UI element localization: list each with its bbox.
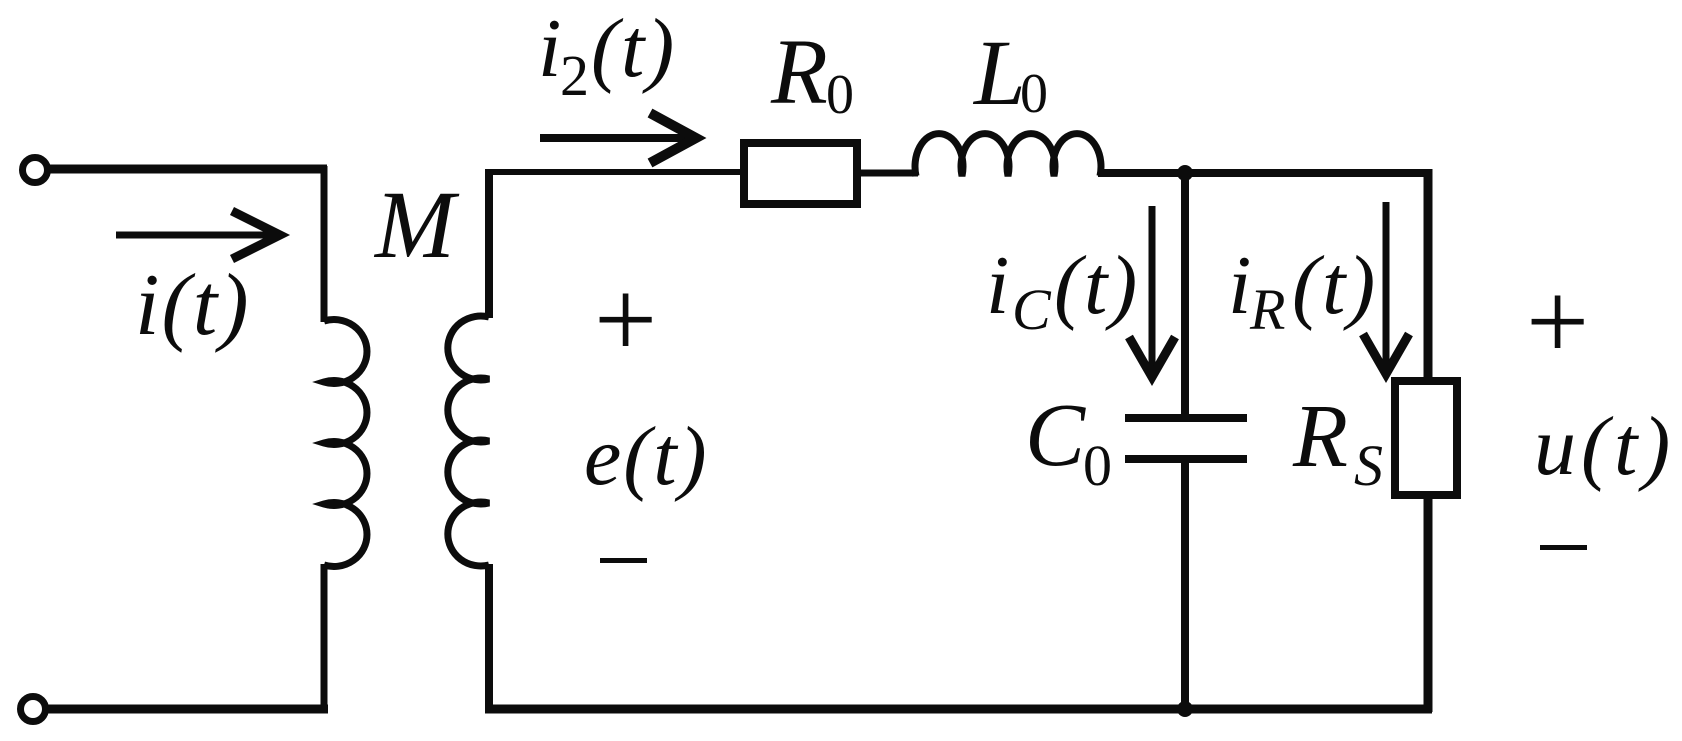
svg-text:R: R — [770, 21, 828, 124]
capacitor C0 top plate — [1125, 414, 1247, 422]
node: top junction — [1177, 165, 1193, 181]
arrow iC(t) head — [1129, 337, 1175, 377]
wire: RS branch lower vertical — [1424, 493, 1433, 712]
wire: secondary top vertical — [485, 169, 493, 318]
wire: bottom rail secondary side — [485, 705, 1432, 714]
svg-text:M: M — [373, 171, 460, 278]
svg-text:u(t): u(t) — [1534, 400, 1675, 493]
svg-text:+: + — [1526, 260, 1589, 384]
svg-text:i: i — [538, 2, 561, 95]
wire: top-left terminal to primary top corner — [47, 165, 327, 174]
minus sign of e(t) — [600, 558, 647, 563]
wire: R0 to L0 — [857, 170, 918, 177]
minus sign of u(t) — [1540, 545, 1587, 550]
wire: bottom-left terminal to primary bottom corner — [45, 705, 328, 714]
svg-text:0: 0 — [1020, 63, 1048, 125]
wire: primary bottom vertical — [321, 564, 328, 712]
terminal T2 bottom-left — [21, 697, 46, 722]
svg-text:C: C — [1025, 386, 1086, 485]
arrow i2(t) shaft — [540, 134, 689, 142]
svg-text:i: i — [1228, 239, 1251, 332]
svg-text:i: i — [986, 239, 1009, 332]
wire: L0 to RS branch top — [1098, 169, 1432, 177]
svg-text:R: R — [1292, 387, 1348, 486]
svg-text:(t): (t) — [591, 2, 676, 95]
svg-text:S: S — [1354, 433, 1383, 498]
wire: C0 branch upper — [1181, 173, 1189, 415]
svg-text:2: 2 — [560, 43, 589, 108]
wire: secondary top to R0 — [486, 169, 746, 175]
svg-text:R: R — [1249, 277, 1285, 342]
node: bottom junction — [1177, 701, 1193, 717]
inductor: transformer secondary winding — [448, 316, 489, 566]
arrow i(t) head — [232, 211, 280, 259]
svg-text:(t): (t) — [1054, 239, 1139, 332]
svg-text:e(t): e(t) — [584, 410, 709, 503]
svg-text:0: 0 — [1083, 433, 1112, 498]
resistor R0 body — [744, 143, 857, 204]
wire: secondary bottom vertical — [485, 564, 493, 712]
svg-text:+: + — [594, 258, 657, 382]
arrow iR(t) head — [1363, 334, 1409, 374]
capacitor C0 bottom plate — [1125, 455, 1247, 463]
svg-text:0: 0 — [826, 64, 854, 126]
arrow iC(t) shaft — [1149, 206, 1156, 372]
arrow i2(t) head — [650, 113, 696, 163]
inductor L0 body — [915, 134, 1101, 176]
wire: C0 branch lower — [1181, 462, 1189, 708]
svg-text:i(t): i(t) — [135, 257, 251, 354]
svg-text:C: C — [1012, 277, 1052, 342]
wire: primary top vertical — [321, 166, 328, 322]
arrow iR(t) shaft — [1383, 202, 1390, 369]
svg-text:L: L — [972, 22, 1026, 125]
inductor: transformer primary winding — [324, 320, 367, 567]
arrow i(t) shaft — [116, 232, 274, 239]
wire: RS branch upper vertical — [1424, 169, 1433, 383]
terminal T1 top-left — [23, 158, 48, 183]
svg-text:(t): (t) — [1292, 239, 1377, 332]
resistor RS body — [1395, 381, 1457, 495]
